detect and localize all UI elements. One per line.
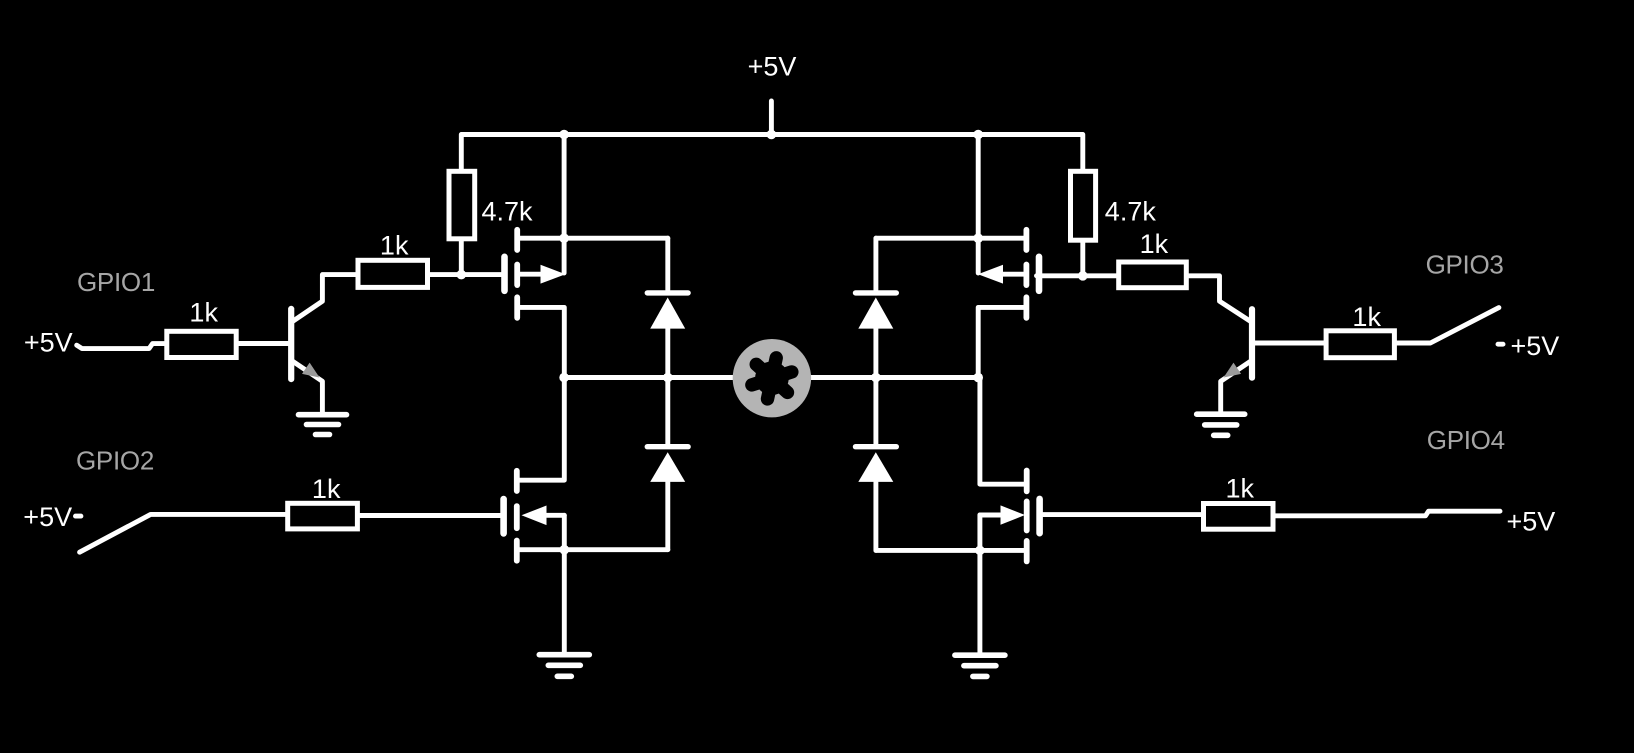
wire Q-NL source to ground bbox=[562, 515, 567, 652]
node motor-left junction bbox=[559, 373, 569, 383]
wire +5V bus bbox=[461, 135, 1083, 170]
mosfet Q-NR (lower-right N-channel) bbox=[876, 379, 1040, 562]
svg-text:4.7k: 4.7k bbox=[482, 197, 534, 227]
svg-text:GPIO4: GPIO4 bbox=[1427, 425, 1505, 455]
node bus-right junction bbox=[973, 130, 983, 140]
mosfet Q-NL (lower-left N-channel) bbox=[504, 379, 668, 561]
svg-text:GPIO2: GPIO2 bbox=[76, 446, 154, 476]
label GPIO4 bbox=[1427, 425, 1505, 455]
transistor Q1 (left NPN) bbox=[239, 275, 356, 413]
label 1k (GPIO2) bbox=[312, 474, 341, 504]
node Q-NR source junction bbox=[975, 546, 985, 556]
wire GPIO2 switch arm bbox=[80, 514, 286, 552]
node bus-left junction bbox=[559, 130, 569, 140]
wire left gate node bbox=[430, 272, 501, 277]
svg-text:+5V: +5V bbox=[1511, 331, 1560, 361]
resistor 1k (GPIO1 base) bbox=[167, 331, 236, 357]
ground (left transistor) bbox=[299, 415, 347, 435]
svg-text:GPIO3: GPIO3 bbox=[1426, 250, 1504, 280]
svg-text:4.7k: 4.7k bbox=[1105, 197, 1157, 227]
ground (bottom-left) bbox=[539, 655, 589, 677]
wire +5V stub (GPIO2, open) bbox=[76, 514, 81, 519]
svg-text:1k: 1k bbox=[1140, 229, 1169, 259]
node D3/D4 motor junction bbox=[871, 373, 881, 383]
wire +5V to Q-PR source bbox=[976, 135, 981, 274]
svg-text:+5V: +5V bbox=[23, 502, 72, 532]
label 1k (GPIO1) bbox=[189, 297, 218, 327]
mosfet Q-PL (upper-left P-channel) bbox=[505, 230, 668, 378]
node Q-PL source junction bbox=[559, 233, 569, 243]
wire motor node bbox=[564, 375, 978, 380]
label 4.7k (right) bbox=[1105, 197, 1157, 227]
node motor-right junction bbox=[973, 373, 983, 383]
diode D1 (upper-left flyback) bbox=[647, 238, 688, 376]
diode D4 (lower-right flyback) bbox=[856, 379, 897, 550]
wire right gate node bbox=[1037, 273, 1117, 278]
ground (bottom-right) bbox=[955, 655, 1005, 676]
node D1/D2 motor junction bbox=[663, 373, 673, 383]
wire +5V to Q-PL source bbox=[562, 135, 567, 274]
resistor 1k (GPIO2 gate) bbox=[288, 503, 358, 529]
label +5V (GPIO3) bbox=[1511, 331, 1560, 361]
svg-text:1k: 1k bbox=[380, 230, 409, 260]
ground (right transistor) bbox=[1197, 414, 1245, 435]
label 4.7k (left) bbox=[482, 197, 534, 227]
label 1k (GPIO4) bbox=[1226, 474, 1255, 504]
label 1k (upper-left) bbox=[380, 230, 409, 260]
resistor 4.7k (right pull-up) bbox=[1071, 171, 1096, 276]
svg-text:GPIO1: GPIO1 bbox=[77, 267, 155, 297]
node bus-center junction bbox=[767, 130, 777, 140]
svg-text:+5V: +5V bbox=[748, 51, 797, 81]
mosfet Q-PR (upper-right P-channel) bbox=[876, 230, 1039, 378]
label GPIO1 bbox=[77, 267, 155, 297]
svg-text:+5V: +5V bbox=[24, 328, 73, 358]
resistor 1k (GPIO4 gate) bbox=[1204, 504, 1274, 530]
transistor Q2 (right NPN) bbox=[1189, 276, 1324, 413]
resistor 4.7k (left pull-up) bbox=[449, 171, 475, 275]
label +5V (GPIO2) bbox=[23, 502, 72, 532]
wire +5V stub (GPIO3, open) bbox=[1498, 342, 1503, 347]
wire GPIO1 input bbox=[77, 344, 165, 349]
label 1k (GPIO3) bbox=[1352, 302, 1381, 332]
resistor 1k (upper-left gate) bbox=[358, 260, 428, 287]
node left gate junction bbox=[457, 270, 467, 280]
label 1k (upper-right) bbox=[1140, 229, 1169, 259]
node Q-PR source junction bbox=[973, 233, 983, 243]
diode D3 (upper-right flyback) bbox=[856, 238, 897, 376]
label GPIO2 bbox=[76, 446, 154, 476]
svg-text:1k: 1k bbox=[1352, 302, 1381, 332]
resistor 1k (upper-right gate) bbox=[1119, 262, 1187, 288]
svg-text:1k: 1k bbox=[1226, 474, 1255, 504]
label +5V (GPIO1) bbox=[24, 328, 73, 358]
wire Q-NR gate to resistor bbox=[1043, 512, 1201, 517]
wire GPIO3 switch arm bbox=[1397, 308, 1499, 343]
+5V supply label (top) bbox=[748, 51, 797, 81]
resistor 1k (GPIO3 base) bbox=[1326, 331, 1394, 358]
wire GPIO2 to Q-NL gate bbox=[360, 513, 501, 518]
diode D2 (lower-left flyback) bbox=[647, 379, 688, 550]
wire +5V stub to bus bbox=[769, 101, 774, 135]
node right gate junction bbox=[1078, 271, 1088, 281]
svg-text:1k: 1k bbox=[189, 297, 218, 327]
label GPIO3 bbox=[1426, 250, 1504, 280]
node Q-NL source junction bbox=[560, 545, 570, 555]
wire GPIO4 to +5V bbox=[1276, 511, 1501, 516]
wire Q-NR source to ground bbox=[977, 515, 982, 653]
motor M1 bbox=[733, 339, 811, 417]
svg-text:+5V: +5V bbox=[1507, 507, 1556, 537]
svg-text:1k: 1k bbox=[312, 474, 341, 504]
label +5V (GPIO4) bbox=[1507, 507, 1556, 537]
